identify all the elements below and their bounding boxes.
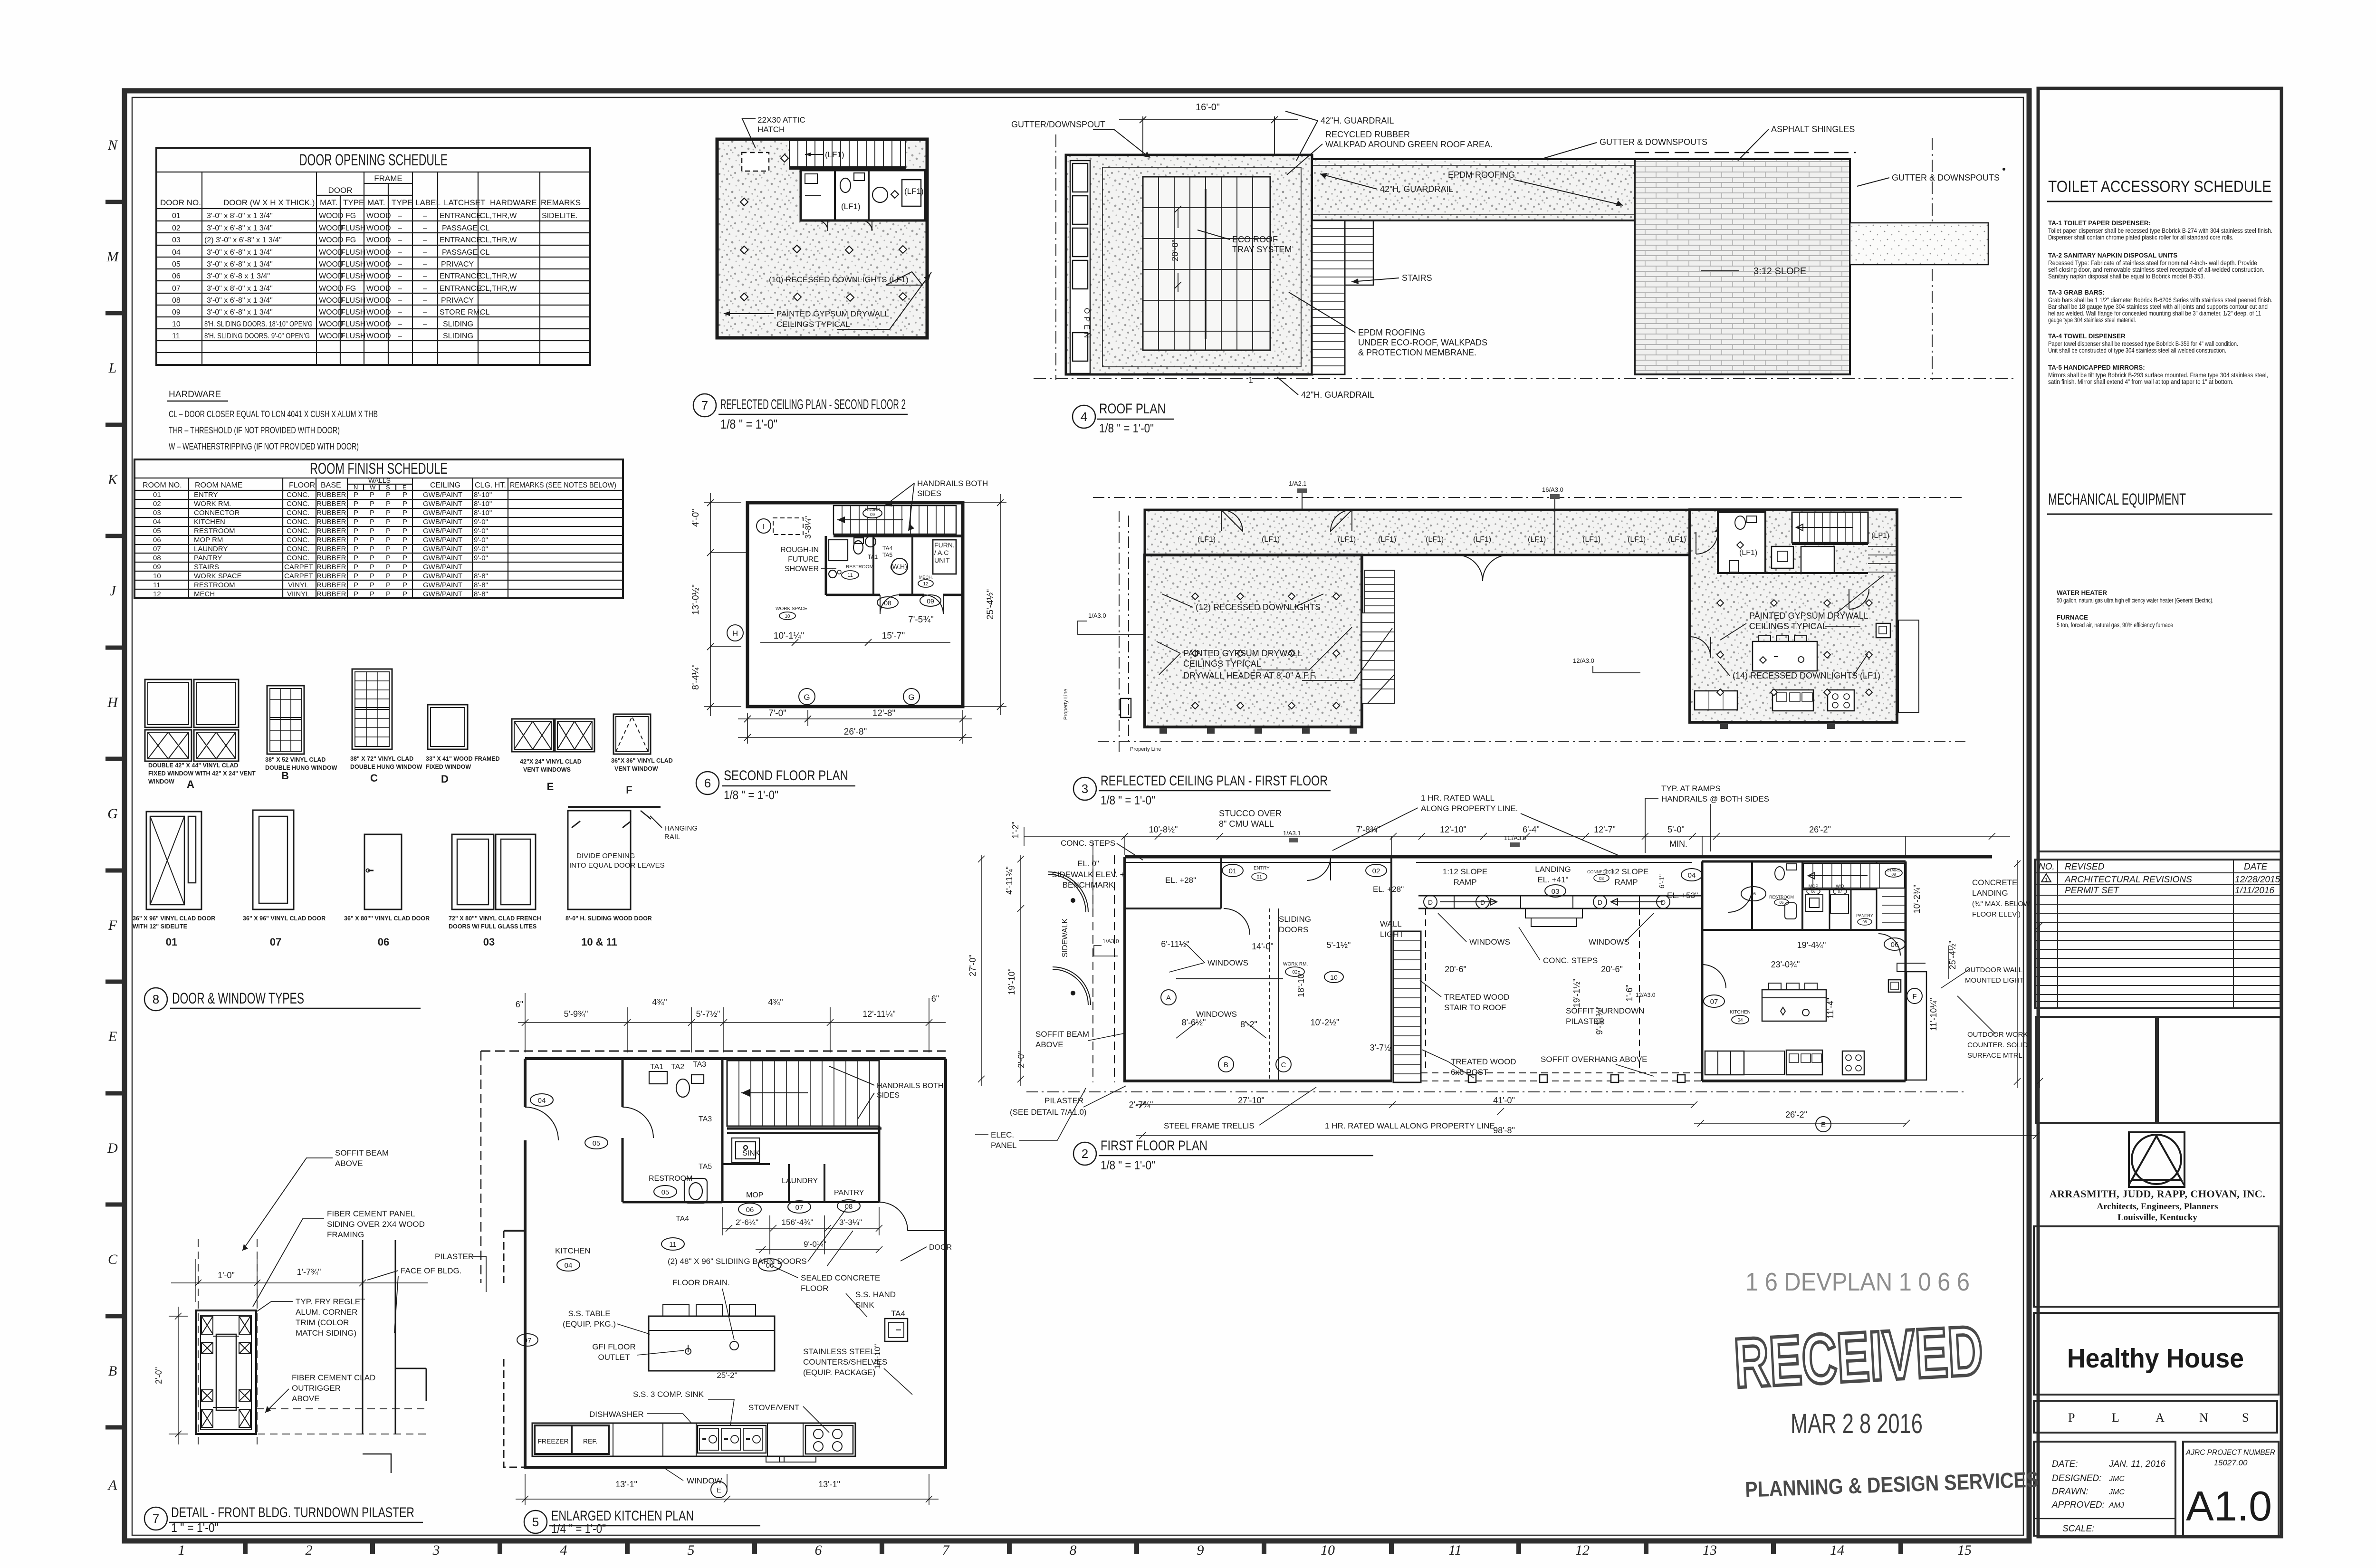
door type 10 & 11 sliding: [568, 807, 661, 909]
svg-text:P: P: [386, 491, 391, 499]
svg-text:(LF1): (LF1): [1668, 535, 1686, 544]
property line dash below first floor plan: [1026, 1091, 1965, 1092]
svg-text:CL: CL: [480, 308, 490, 316]
svg-text:CONC.: CONC.: [287, 536, 309, 544]
svg-text:15: 15: [1957, 1542, 1972, 1558]
svg-text:9'-0": 9'-0": [474, 518, 488, 526]
svg-text:3'-0" x 6'-8" x 1 3/4": 3'-0" x 6'-8" x 1 3/4": [207, 224, 273, 232]
svg-text:RECYCLED RUBBER: RECYCLED RUBBER: [1325, 130, 1410, 139]
svg-text:CONC. STEPS: CONC. STEPS: [1061, 839, 1115, 848]
svg-text:LATCHSET: LATCHSET: [444, 198, 486, 207]
strip door arcs: [1221, 510, 1737, 531]
svg-text:KITCHEN: KITCHEN: [555, 1246, 591, 1255]
svg-text:WORK SPACE: WORK SPACE: [776, 606, 807, 612]
svg-text:3'-8¼": 3'-8¼": [804, 516, 813, 539]
svg-text:19'-4¼": 19'-4¼": [1797, 940, 1826, 950]
svg-text:S: S: [386, 484, 390, 491]
svg-text:RESTROOM: RESTROOM: [846, 564, 873, 570]
svg-text:72" X 80"'' VINYL CLAD FRENCH: 72" X 80"'' VINYL CLAD FRENCH: [449, 915, 541, 922]
svg-text:4¾": 4¾": [768, 997, 783, 1007]
svg-text:JMC: JMC: [2108, 1475, 2125, 1483]
svg-text:S.S. 3 COMP. SINK: S.S. 3 COMP. SINK: [633, 1390, 704, 1399]
svg-text:5 ton, forced air, natural gas: 5 ton, forced air, natural gas, 90% effi…: [2057, 621, 2173, 629]
svg-text:03: 03: [153, 509, 161, 517]
svg-text:OUTDOOR WALL: OUTDOOR WALL: [1965, 966, 2022, 974]
svg-text:E: E: [1821, 1121, 1826, 1129]
svg-text:FG: FG: [345, 236, 356, 244]
svg-text:Property Line: Property Line: [1063, 689, 1069, 720]
svg-text:FG: FG: [345, 285, 356, 293]
svg-text:42"H. GUARDRAIL: 42"H. GUARDRAIL: [1301, 390, 1374, 400]
svg-text:(EQUIP. PKG.): (EQUIP. PKG.): [563, 1319, 616, 1329]
svg-text:CONC.: CONC.: [287, 500, 309, 508]
svg-text:GWB/PAINT: GWB/PAINT: [423, 527, 462, 535]
svg-text:MATCH SIDING): MATCH SIDING): [296, 1329, 356, 1338]
two empty boxes: [2036, 1017, 2280, 1123]
wall to right (face of bldg): [363, 1240, 426, 1473]
svg-text:ASPHALT SHINGLES: ASPHALT SHINGLES: [1771, 124, 1855, 134]
svg-text:DIVIDE OPENING: DIVIDE OPENING: [576, 852, 635, 860]
svg-text:3'-0" x 6'-8" x 1 3/4": 3'-0" x 6'-8" x 1 3/4": [207, 296, 273, 305]
svg-text:APPROVED:: APPROVED:: [2051, 1500, 2105, 1510]
svg-text:CONC.: CONC.: [287, 527, 309, 535]
svg-text:STAIR TO ROOF: STAIR TO ROOF: [1444, 1003, 1506, 1012]
svg-text:P: P: [386, 581, 391, 589]
svg-text:WINDOWS: WINDOWS: [1207, 958, 1248, 967]
svg-text:ROOM NO.: ROOM NO.: [143, 481, 182, 489]
svg-text:P: P: [402, 563, 407, 571]
svg-text:04: 04: [565, 1262, 573, 1270]
svg-text:(10) RECESSED DOWNLIGHTS (LF1): (10) RECESSED DOWNLIGHTS (LF1): [769, 275, 909, 284]
title block column border: [2038, 88, 2281, 1537]
svg-text:8'-8": 8'-8": [474, 581, 488, 589]
svg-text:5'-7½": 5'-7½": [696, 1009, 720, 1019]
svg-text:TA-1 TOILET PAPER DISPENSER:: TA-1 TOILET PAPER DISPENSER:: [2048, 220, 2151, 227]
svg-text:26'-2": 26'-2": [1785, 1110, 1807, 1119]
svg-text:13'-1": 13'-1": [615, 1480, 637, 1489]
right roof block shingles: [1635, 159, 1850, 374]
svg-text:8'-8": 8'-8": [474, 590, 488, 598]
svg-text:26'-8": 26'-8": [844, 727, 867, 737]
svg-text:GWB/PAINT: GWB/PAINT: [423, 554, 462, 562]
captions for door & window types: [133, 755, 673, 930]
svg-text:OUTRIGGER: OUTRIGGER: [292, 1384, 341, 1393]
rough-in note: [780, 546, 819, 573]
(LF1) labels along top strip: [1198, 532, 1889, 557]
svg-text:10 & 11: 10 & 11: [581, 936, 617, 948]
svg-text:P: P: [370, 527, 374, 535]
svg-text:Paper towel dispenser shall be: Paper towel dispenser shall be recessed …: [2048, 340, 2238, 347]
svg-text:CONC.: CONC.: [287, 518, 309, 526]
svg-text:06: 06: [1891, 941, 1899, 949]
svg-text:K: K: [107, 472, 118, 488]
svg-text:DRYWALL HEADER AT 8'-0" A.F.F.: DRYWALL HEADER AT 8'-0" A.F.F.: [1183, 671, 1317, 680]
svg-text:(LF1): (LF1): [1378, 535, 1396, 544]
svg-text:P: P: [402, 491, 407, 499]
svg-text:WOOD: WOOD: [319, 320, 344, 328]
svg-text:8: 8: [1070, 1542, 1077, 1558]
svg-text:RUBBER: RUBBER: [316, 518, 346, 526]
svg-text:P: P: [370, 509, 374, 517]
svg-text:FIRST FLOOR PLAN: FIRST FLOOR PLAN: [1101, 1138, 1207, 1154]
svg-text:DOOR & WINDOW TYPES: DOOR & WINDOW TYPES: [172, 990, 304, 1007]
svg-text:WOOD: WOOD: [319, 272, 344, 280]
svg-text:3'-7½": 3'-7½": [1370, 1043, 1394, 1052]
svg-text:(SEE DETAIL 7/A1.0): (SEE DETAIL 7/A1.0): [1010, 1108, 1087, 1117]
svg-text:ALUM. CORNER: ALUM. CORNER: [296, 1308, 357, 1317]
svg-text:TA4: TA4: [882, 545, 892, 552]
svg-text:–: –: [423, 285, 427, 293]
dimension texts: [968, 809, 1957, 1135]
svg-text:DOUBLE 42" X 44" VINYL CLAD: DOUBLE 42" X 44" VINYL CLAD: [148, 762, 238, 769]
stairs below strip: [1312, 220, 1373, 374]
svg-text:1'-2": 1'-2": [1011, 822, 1020, 839]
left margin row letters: [106, 137, 120, 1493]
pilaster detail labels: [242, 1148, 486, 1413]
svg-text:HARDWARE: HARDWARE: [169, 390, 221, 400]
svg-text:RESTROOM: RESTROOM: [194, 527, 235, 535]
svg-text:MAR 2 8 2016: MAR 2 8 2016: [1791, 1408, 1923, 1439]
first floor title: [1073, 1138, 1373, 1172]
courtyard dashed walls / trellis: [1421, 908, 1702, 1081]
svg-text:FLOOR ELEV.): FLOOR ELEV.): [1972, 910, 2021, 918]
svg-text:ENTRANCE: ENTRANCE: [440, 285, 481, 293]
svg-text:RUBBER: RUBBER: [316, 563, 346, 571]
svg-text:KITCHEN: KITCHEN: [194, 518, 225, 526]
svg-text:FLUSH: FLUSH: [341, 296, 365, 305]
right block stair top right: [1803, 863, 1905, 922]
svg-text:DOORS: DOORS: [1279, 925, 1308, 934]
dimension lines top: [1024, 827, 2010, 912]
svg-text:WOOD: WOOD: [319, 308, 344, 316]
svg-text:WITH 12" SIDELITE: WITH 12" SIDELITE: [133, 923, 187, 930]
svg-text:1'-6": 1'-6": [1625, 985, 1634, 1002]
svg-text:WALKPAD AROUND GREEN ROOF AREA: WALKPAD AROUND GREEN ROOF AREA.: [1325, 140, 1493, 149]
svg-text:TREATED WOOD: TREATED WOOD: [1444, 993, 1510, 1002]
window type F: [613, 714, 651, 754]
svg-text:02: 02: [153, 500, 161, 508]
svg-text:5: 5: [532, 1515, 539, 1529]
svg-text:1/A3.1: 1/A3.1: [1283, 830, 1301, 837]
svg-text:1/A2.1: 1/A2.1: [1289, 480, 1307, 487]
svg-text:L: L: [108, 360, 117, 376]
svg-text:8" CMU WALL: 8" CMU WALL: [1219, 819, 1274, 829]
svg-text:TA-5 HANDICAPPED MIRRORS:: TA-5 HANDICAPPED MIRRORS:: [2048, 364, 2145, 371]
svg-text:01: 01: [172, 212, 181, 220]
stair to roof in courtyard: [1393, 931, 1421, 1082]
bottom dims kitchen: [516, 1474, 939, 1505]
svg-text:PRIVACY: PRIVACY: [441, 296, 474, 305]
svg-text:1: 1: [2045, 877, 2048, 883]
svg-text:FLUSH: FLUSH: [341, 224, 365, 232]
svg-text:STAIRS: STAIRS: [1402, 273, 1432, 283]
svg-text:WOOD: WOOD: [366, 272, 391, 280]
svg-text:01: 01: [166, 936, 177, 948]
svg-text:TA4: TA4: [676, 1215, 689, 1223]
svg-text:9'-0": 9'-0": [474, 536, 488, 544]
svg-text:4¾": 4¾": [652, 997, 667, 1007]
right block: [1690, 510, 1897, 722]
svg-text:LAUNDRY: LAUNDRY: [782, 1177, 818, 1185]
svg-text:P: P: [370, 590, 374, 598]
ovals room tags: [776, 564, 941, 620]
svg-text:CL,THR,W: CL,THR,W: [480, 272, 517, 280]
svg-text:MOUNTED LIGHT: MOUNTED LIGHT: [1965, 976, 2024, 985]
roof labels: [1011, 111, 2000, 400]
svg-text:REMARKS (SEE NOTES BELOW): REMARKS (SEE NOTES BELOW): [510, 481, 616, 489]
svg-text:7'-5¾": 7'-5¾": [908, 615, 934, 625]
svg-text:–: –: [423, 308, 427, 316]
svg-text:P: P: [386, 500, 391, 508]
svg-text:12: 12: [153, 590, 161, 598]
svg-text:FUTURE: FUTURE: [788, 555, 819, 564]
svg-text:WINDOW: WINDOW: [148, 778, 174, 785]
svg-text:Recessed Type: Fabricate of s: Recessed Type: Fabricate of stainless st…: [2048, 259, 2257, 267]
svg-text:TA3: TA3: [699, 1115, 712, 1123]
svg-text:05: 05: [593, 1139, 601, 1147]
svg-text:7: 7: [153, 1511, 159, 1526]
svg-text:STAIRS: STAIRS: [865, 507, 880, 512]
svg-text:E: E: [108, 1029, 117, 1044]
top strip EPDM: [1312, 159, 1635, 220]
svg-text:8'H. SLIDING DOORS. 18'-10" OP: 8'H. SLIDING DOORS. 18'-10" OPEN'G: [204, 320, 313, 328]
pilaster plan box: [196, 1310, 256, 1434]
svg-text:TYP. AT RAMPS: TYP. AT RAMPS: [1661, 784, 1721, 793]
svg-text:CEILINGS TYPICAL: CEILINGS TYPICAL: [776, 320, 850, 329]
attic hatch dashed: [742, 153, 769, 171]
svg-text:WOOD: WOOD: [366, 308, 391, 316]
bath block: [801, 170, 925, 231]
svg-text:1: 1: [178, 1542, 185, 1558]
svg-text:SCALE:: SCALE:: [2062, 1524, 2095, 1534]
svg-text:03: 03: [1552, 888, 1560, 896]
svg-text:SLIDING: SLIDING: [443, 332, 473, 340]
svg-text:(LF1): (LF1): [841, 202, 861, 211]
svg-text:RUBBER: RUBBER: [316, 527, 346, 535]
svg-text:09: 09: [172, 308, 181, 316]
svg-text:SEALED CONCRETE: SEALED CONCRETE: [801, 1273, 880, 1282]
svg-text:REMARKS: REMARKS: [541, 198, 581, 207]
svg-text:GUTTER & DOWNSPOUTS: GUTTER & DOWNSPOUTS: [1892, 173, 2000, 182]
healthy house box: [2034, 1313, 2279, 1395]
svg-text:25'-2": 25'-2": [717, 1371, 737, 1380]
svg-text:09: 09: [153, 563, 161, 571]
svg-text:EL. +28": EL. +28": [1373, 885, 1404, 894]
svg-text:P: P: [354, 581, 358, 589]
svg-text:9'-0": 9'-0": [474, 545, 488, 553]
svg-text:GWB/PAINT: GWB/PAINT: [423, 545, 462, 553]
svg-text:EPDM ROOFING: EPDM ROOFING: [1358, 328, 1425, 337]
svg-text:SINK: SINK: [855, 1300, 874, 1310]
svg-text:P: P: [2068, 1411, 2075, 1425]
svg-text:P: P: [370, 572, 374, 580]
svg-text:5'-9¾": 5'-9¾": [564, 1009, 588, 1019]
fixtures: [829, 536, 956, 578]
svg-text:BENCHMARK: BENCHMARK: [1063, 880, 1114, 889]
svg-text:01: 01: [1256, 875, 1262, 880]
svg-text:TRIM (COLOR: TRIM (COLOR: [296, 1318, 349, 1327]
svg-text:6": 6": [931, 994, 939, 1004]
svg-text:SIDES: SIDES: [917, 489, 941, 498]
svg-text:MIN.: MIN.: [1669, 839, 1687, 849]
stair in kitchen plan: [727, 1061, 881, 1128]
svg-text:/ A.C: / A.C: [934, 549, 948, 556]
svg-text:8'H. SLIDING DOORS. 9'-0" OPEN: 8'H. SLIDING DOORS. 9'-0" OPEN'G: [204, 332, 310, 340]
svg-text:LABEL: LABEL: [415, 198, 441, 207]
svg-text:N: N: [354, 484, 358, 491]
svg-text:TRAY SYSTEM: TRAY SYSTEM: [1232, 245, 1292, 254]
svg-text:WOOD: WOOD: [319, 285, 344, 293]
svg-text:5'-1½": 5'-1½": [1327, 940, 1351, 950]
downlight diamonds left block: [1192, 593, 1340, 709]
svg-text:P: P: [354, 554, 358, 562]
property line dash-dot: [1034, 134, 2015, 380]
sheet number box: [2183, 1442, 2279, 1536]
svg-text:DRAWN:: DRAWN:: [2052, 1487, 2089, 1497]
svg-text:2: 2: [1082, 1147, 1088, 1161]
svg-text:heliarc welded. Wall flange f: heliarc welded. Wall flange for conceale…: [2048, 310, 2261, 317]
svg-text:FG: FG: [345, 212, 356, 220]
svg-text:10'-1¼": 10'-1¼": [774, 631, 804, 641]
svg-text:TYPE: TYPE: [392, 198, 412, 207]
svg-text:SIDELITE.: SIDELITE.: [542, 212, 578, 220]
svg-text:15027.00: 15027.00: [2214, 1458, 2248, 1467]
pilaster title: [144, 1505, 423, 1535]
svg-text:NO.: NO.: [2039, 862, 2055, 872]
svg-text:38" X 72" VINYL CLAD: 38" X 72" VINYL CLAD: [350, 755, 413, 762]
svg-text:CL,THR,W: CL,THR,W: [480, 236, 517, 244]
date / drawn box: [2034, 1442, 2175, 1536]
divide opening note inside sliding door: [569, 852, 665, 870]
svg-text:H: H: [732, 629, 738, 638]
svg-text:VENT WINDOW: VENT WINDOW: [614, 765, 658, 772]
svg-text:DOOR OPENING SCHEDULE: DOOR OPENING SCHEDULE: [299, 151, 448, 169]
svg-text:1/8 " = 1'-0": 1/8 " = 1'-0": [1101, 793, 1155, 807]
svg-text:F: F: [108, 918, 117, 933]
svg-text:FIBER CEMENT CLAD: FIBER CEMENT CLAD: [292, 1373, 375, 1382]
svg-text:ROOF PLAN: ROOF PLAN: [1099, 401, 1166, 417]
svg-text:P: P: [402, 500, 407, 508]
svg-text:EL. +41": EL. +41": [1537, 875, 1568, 884]
svg-text:OPEN: OPEN: [1083, 308, 1091, 341]
svg-text:06: 06: [1811, 889, 1816, 894]
svg-text:D: D: [1480, 899, 1485, 906]
dim line top: [169, 1259, 428, 1444]
svg-text:FIBER CEMENT PANEL: FIBER CEMENT PANEL: [327, 1209, 415, 1218]
svg-text:2'-0": 2'-0": [154, 1367, 163, 1384]
svg-text:WOOD: WOOD: [319, 224, 344, 232]
svg-text:STAIRS: STAIRS: [1887, 868, 1900, 872]
svg-text:WOOD: WOOD: [366, 236, 391, 244]
svg-text:CONC.: CONC.: [287, 509, 309, 517]
svg-text:WOOD: WOOD: [319, 212, 344, 220]
svg-text:RUBBER: RUBBER: [316, 545, 346, 553]
corner X blocking: [201, 1316, 213, 1334]
svg-text:3'-0" x 8'-0" x 1 3/4": 3'-0" x 8'-0" x 1 3/4": [207, 285, 273, 293]
svg-text:WOOD: WOOD: [366, 332, 391, 340]
svg-text:B: B: [1224, 1061, 1228, 1069]
svg-text:RUBBER: RUBBER: [316, 590, 346, 598]
svg-text:PAINTED GYPSUM DRYWALL: PAINTED GYPSUM DRYWALL: [1183, 649, 1303, 658]
svg-text:20'-0": 20'-0": [1170, 239, 1180, 261]
svg-text:WINDOWS: WINDOWS: [1469, 937, 1510, 947]
svg-text:1'-0": 1'-0": [218, 1271, 235, 1280]
svg-text:08: 08: [884, 599, 891, 607]
svg-text:TA-3 GRAB BARS:: TA-3 GRAB BARS:: [2048, 289, 2105, 296]
svg-text:CONNECTOR: CONNECTOR: [194, 509, 240, 517]
walkpad outline around eco grid: [1102, 167, 1301, 367]
16'-0" dimension: [1119, 116, 1298, 155]
svg-text:–: –: [423, 272, 427, 280]
svg-text:P: P: [386, 563, 391, 571]
svg-text:36" X 96" VINYL CLAD DOOR: 36" X 96" VINYL CLAD DOOR: [133, 915, 215, 922]
rcp2 title: [693, 394, 908, 431]
svg-text:27'-0": 27'-0": [968, 955, 977, 976]
svg-text:RUBBER: RUBBER: [316, 572, 346, 580]
svg-text:9'-0": 9'-0": [474, 527, 488, 535]
svg-text:05: 05: [172, 260, 181, 268]
svg-text:OUTDOOR WORK: OUTDOOR WORK: [1967, 1031, 2028, 1039]
svg-text:13: 13: [1703, 1542, 1717, 1558]
svg-text:(LF1): (LF1): [1426, 535, 1444, 544]
svg-text:SLIDING: SLIDING: [1279, 915, 1311, 924]
svg-text:CL: CL: [480, 249, 490, 257]
svg-text:Architects, Engineers, Planner: Architects, Engineers, Planners: [2097, 1202, 2218, 1212]
svg-text:WOOD: WOOD: [319, 260, 344, 268]
svg-text:COUNTER. SOLID: COUNTER. SOLID: [1967, 1041, 2028, 1049]
left big block: [1145, 555, 1362, 727]
svg-text:(EQUIP. PACKAGE): (EQUIP. PACKAGE): [803, 1368, 875, 1377]
handrails note: [885, 479, 988, 531]
svg-text:KITCHEN: KITCHEN: [1730, 1010, 1751, 1015]
svg-text:98'-8": 98'-8": [1493, 1126, 1515, 1135]
svg-text:16/A3.0: 16/A3.0: [1542, 486, 1563, 493]
svg-text:SIDES: SIDES: [877, 1091, 900, 1100]
svg-text:WINDOWS: WINDOWS: [1589, 937, 1629, 947]
svg-text:12'-10": 12'-10": [1440, 825, 1466, 834]
interior partitions: [826, 536, 963, 614]
svg-text:S.S. TABLE: S.S. TABLE: [568, 1309, 610, 1318]
circled tags first floor: [1161, 864, 1922, 1132]
svg-text:RESTROOM: RESTROOM: [649, 1175, 692, 1183]
svg-text:HANDRAILS BOTH: HANDRAILS BOTH: [877, 1082, 943, 1090]
svg-text:–: –: [398, 296, 402, 305]
svg-text:P: P: [402, 545, 407, 553]
svg-text:RUBBER: RUBBER: [316, 536, 346, 544]
hardware notes: [167, 390, 378, 452]
bottom border ticks: [245, 1541, 1901, 1554]
eco roof tray grid: [1143, 177, 1270, 350]
svg-text:G: G: [107, 806, 118, 822]
svg-text:CONC. STEPS: CONC. STEPS: [1543, 956, 1598, 965]
svg-text:DOUBLE HUNG WINDOW: DOUBLE HUNG WINDOW: [350, 764, 422, 770]
svg-text:GWB/PAINT: GWB/PAINT: [423, 581, 462, 589]
svg-text:Dispenser shall contain chrome: Dispenser shall contain chrome plated pl…: [2048, 234, 2233, 241]
interior: restroom + mop/laundry/pantry row: [525, 1059, 946, 1231]
svg-text:Healthy House: Healthy House: [2067, 1343, 2244, 1374]
svg-text:22X30 ATTIC: 22X30 ATTIC: [757, 115, 805, 124]
svg-text:W – WEATHERSTRIPPING (IF NOT P: W – WEATHERSTRIPPING (IF NOT PROVIDED WI…: [169, 442, 359, 452]
svg-text:PERMIT SET: PERMIT SET: [2065, 886, 2119, 896]
svg-text:P: P: [370, 563, 374, 571]
svg-text:4: 4: [560, 1542, 567, 1558]
svg-text:P: P: [354, 518, 358, 526]
svg-text:06: 06: [153, 536, 161, 544]
svg-text:20'-6": 20'-6": [1601, 965, 1623, 974]
sheet outer border: [125, 91, 2029, 1541]
svg-text:WOOD: WOOD: [319, 236, 344, 244]
svg-text:J: J: [109, 583, 116, 599]
